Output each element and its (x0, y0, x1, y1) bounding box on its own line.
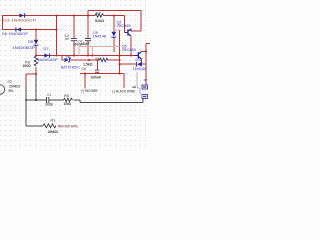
svg-text:1N4148: 1N4148 (93, 35, 107, 39)
svg-text:1N4148: 1N4148 (133, 67, 147, 71)
svg-text:100Ω: 100Ω (64, 102, 72, 106)
svg-text:D3 1N4006CP: D3 1N4006CP (3, 19, 37, 23)
resistor R7 (95, 14, 103, 18)
wire black rail to battery (80, 99, 143, 103)
wire red stub to (+) RED WIRE label (84, 74, 86, 89)
svg-text:C3: C3 (47, 93, 51, 97)
wire D9 leads vertical (113, 16, 115, 53)
wire zener rail y60 (71, 59, 120, 61)
svg-text:100Ω: 100Ω (22, 64, 31, 68)
svg-text:R8: R8 (95, 57, 100, 61)
svg-text:5%: 5% (9, 89, 14, 93)
capacitor C3 (46, 97, 49, 103)
svg-text:BZX79-B5V1: BZX79-B5V1 (61, 65, 80, 69)
wire after R5 (74, 100, 81, 103)
svg-text:1MΩ: 1MΩ (48, 130, 59, 134)
wire zener drop (62, 56, 64, 61)
wire second rail (2, 29, 57, 31)
wire mic riser (25, 74, 27, 87)
diode D3 (19, 13, 25, 17)
svg-text:D10: D10 (136, 58, 143, 62)
svg-text:2SC945: 2SC945 (117, 24, 131, 28)
wire mid rail y55.5 (36, 55, 138, 57)
wire D5 branch vertical (35, 30, 37, 75)
svg-text:(+) RED WIRE: (+) RED WIRE (81, 89, 99, 93)
wire R1 branch (26, 100, 60, 126)
svg-text:R7: R7 (96, 12, 101, 16)
microphone (0, 85, 5, 94)
wire C6 leads (97, 60, 99, 74)
wire C2 riser (73, 16, 75, 56)
svg-text:XP: XP (144, 78, 148, 82)
junction dots (25, 15, 147, 101)
wire R7 to Q2 (104, 16, 125, 33)
resistor R8 (100, 58, 108, 62)
wire stub to (-) BLACK WIRE label (123, 74, 125, 89)
svg-text:1N4006GP: 1N4006GP (12, 46, 36, 50)
capacitor C6 (95, 70, 100, 73)
svg-text:C6: C6 (82, 67, 87, 71)
dark bottom wires (26, 74, 143, 126)
transistor Q5 (134, 52, 142, 60)
svg-text:(-) BLACK WIRE: (-) BLACK WIRE (112, 89, 136, 93)
wire bottom-left rail (26, 99, 64, 101)
svg-text:D5: D5 (28, 40, 33, 44)
resistor R5 (64, 98, 73, 102)
wire C4 riser / loop left (87, 11, 89, 56)
svg-text:R5: R5 (64, 94, 69, 98)
svg-text:100KΩ: 100KΩ (9, 84, 20, 88)
wire D10 rail (120, 60, 147, 65)
zener D8 (64, 58, 71, 63)
wire left y74 rail (26, 73, 36, 75)
battery connector (142, 85, 148, 99)
svg-text:R2: R2 (8, 80, 13, 84)
wire right edge battery feed (146, 44, 150, 86)
svg-text:102k: 102k (45, 102, 53, 106)
svg-text:1N4004GP: 1N4004GP (37, 58, 59, 62)
svg-text:100mF: 100mF (82, 42, 90, 46)
wire left edge vertical (2, 16, 4, 30)
diode D9 (111, 32, 116, 38)
resistor R6 (vertical) (34, 56, 38, 66)
svg-text:D6 1N4006GP: D6 1N4006GP (2, 32, 29, 36)
svg-text:BROWN WIRE: BROWN WIRE (60, 125, 79, 129)
labels (2, 12, 148, 134)
capacitor C2 (71, 38, 77, 41)
svg-text:1.5kΩ: 1.5kΩ (83, 62, 93, 66)
wire y73.5 rail (80, 73, 124, 75)
wire Q2 emitter down (130, 37, 132, 56)
svg-text:1mF: 1mF (65, 37, 70, 41)
svg-text:R1: R1 (51, 119, 56, 123)
wire Q5 collector link (142, 51, 147, 53)
wire top loop (88, 11, 141, 32)
diode D7 (44, 53, 50, 57)
transistor Q2 (125, 29, 132, 36)
svg-text:51kΩ: 51kΩ (95, 19, 104, 23)
diode D6 (15, 27, 21, 31)
svg-text:100mF: 100mF (91, 75, 102, 79)
diode D10 (136, 62, 142, 67)
wire top rail (2, 11, 150, 89)
svg-text:D7: D7 (44, 47, 49, 51)
wire faint y46.5 (79, 30, 120, 56)
wire vertical x56 (56, 16, 58, 56)
resistor R1 (43, 124, 56, 128)
capacitor C4 (85, 38, 91, 41)
wire mic stub (26, 74, 36, 100)
wire vertical x119.5 (119, 30, 121, 74)
diode D5 (34, 40, 39, 46)
svg-text:D8: D8 (66, 56, 71, 60)
svg-text:2SC945: 2SC945 (122, 48, 136, 52)
